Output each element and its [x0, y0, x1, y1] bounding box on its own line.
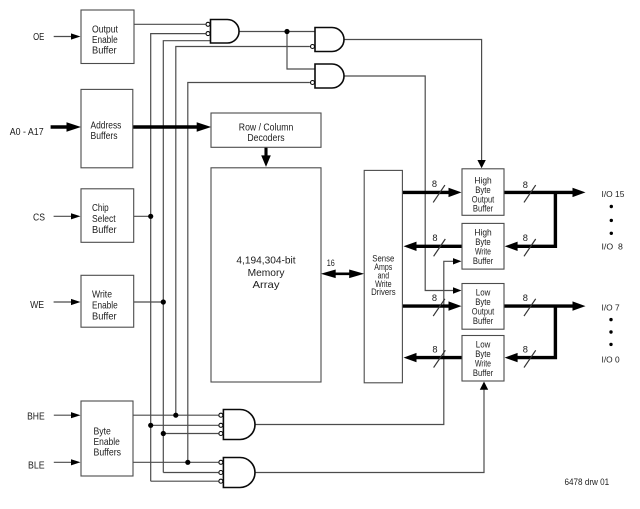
svg-text:Enable: Enable: [94, 437, 120, 448]
svg-text:6478 drw 01: 6478 drw 01: [565, 477, 610, 487]
svg-text:8: 8: [523, 233, 528, 243]
svg-text:Buffers: Buffers: [94, 447, 122, 458]
svg-text:16: 16: [327, 258, 335, 268]
svg-text:I/O 7: I/O 7: [602, 302, 620, 312]
svg-text:8: 8: [432, 233, 437, 243]
svg-text:I/O 8: I/O 8: [602, 242, 624, 252]
svg-text:Buffer: Buffer: [473, 256, 493, 266]
svg-text:I/O 15: I/O 15: [602, 189, 625, 199]
svg-text:8: 8: [523, 344, 528, 354]
svg-text:Low: Low: [476, 288, 491, 298]
svg-text:Buffer: Buffer: [92, 225, 117, 236]
svg-text:8: 8: [432, 293, 437, 303]
svg-text:8: 8: [432, 344, 437, 354]
svg-text:Byte: Byte: [475, 297, 491, 307]
svg-text:Output: Output: [92, 24, 118, 35]
svg-text:Byte: Byte: [475, 349, 491, 359]
svg-text:Memory: Memory: [248, 268, 286, 279]
svg-text:Buffer: Buffer: [473, 316, 493, 326]
svg-text:Array: Array: [253, 280, 281, 291]
svg-text:BLE: BLE: [28, 461, 45, 472]
svg-text:4,194,304-bit: 4,194,304-bit: [236, 256, 295, 267]
svg-text:Write: Write: [92, 290, 112, 301]
svg-text:Buffer: Buffer: [473, 203, 493, 213]
svg-text:Decoders: Decoders: [247, 133, 284, 144]
svg-text:OE: OE: [33, 32, 44, 43]
svg-text:Enable: Enable: [92, 301, 118, 312]
svg-text:8: 8: [523, 180, 528, 190]
svg-text:8: 8: [432, 179, 437, 189]
svg-text:High: High: [474, 228, 491, 238]
svg-text:High: High: [474, 175, 491, 185]
svg-text:I/O 0: I/O 0: [602, 354, 620, 364]
svg-text:Byte: Byte: [94, 427, 111, 438]
svg-text:BHE: BHE: [27, 412, 45, 423]
svg-text:WE: WE: [30, 300, 44, 311]
svg-text:A0 - A17: A0 - A17: [10, 127, 44, 138]
svg-text:CS: CS: [33, 212, 45, 223]
svg-text:Buffer: Buffer: [92, 312, 117, 323]
svg-text:Row / Column: Row / Column: [239, 122, 294, 133]
svg-text:8: 8: [523, 293, 528, 303]
svg-text:Byte: Byte: [475, 185, 491, 195]
svg-text:Chip: Chip: [92, 203, 109, 214]
svg-text:Buffer: Buffer: [473, 368, 493, 378]
svg-text:Enable: Enable: [92, 35, 118, 46]
svg-text:Byte: Byte: [475, 237, 491, 247]
svg-text:Buffers: Buffers: [91, 131, 118, 142]
svg-text:Buffer: Buffer: [92, 45, 117, 56]
svg-text:Drivers: Drivers: [371, 287, 396, 297]
svg-text:Low: Low: [476, 340, 491, 350]
svg-text:Select: Select: [92, 214, 116, 225]
